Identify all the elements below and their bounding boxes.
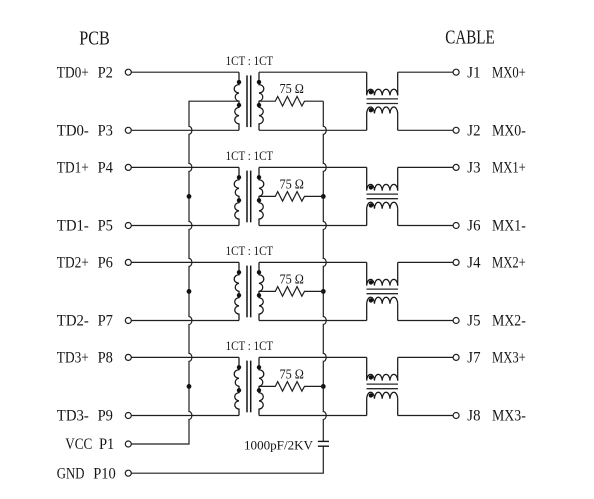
wire T1 secondary bottom to choke L1: [259, 129, 367, 131]
svg-text:P7: P7: [98, 313, 114, 330]
common-mode choke L1 top winding: [367, 72, 398, 95]
svg-text:MX2-: MX2-: [492, 313, 526, 330]
wire P7 to T3 primary bottom: [132, 320, 240, 322]
common-mode choke L2 core: [367, 194, 399, 199]
transformer T3 secondary winding: [259, 262, 264, 320]
transformer T1 secondary winding: [259, 72, 264, 130]
wire choke L2 to J3: [398, 166, 453, 168]
svg-text:75 Ω: 75 Ω: [279, 81, 304, 96]
svg-text:MX0+: MX0+: [492, 64, 526, 81]
junction: T2 primary CT to VCC rail: [187, 194, 192, 199]
common-mode choke L1 bottom winding right lead: [397, 114, 399, 131]
transformer T3 phase dots: [237, 270, 261, 297]
common-mode choke L3 bottom winding: [367, 297, 398, 320]
common-mode choke L1 core: [367, 99, 399, 104]
svg-text:MX2+: MX2+: [492, 255, 526, 272]
pin label J3 MX1+: [467, 160, 526, 177]
common-mode choke L3 top winding: [367, 262, 398, 285]
common-mode choke L3 core: [367, 289, 399, 294]
pin terminal P4 (TD1+): [125, 164, 131, 170]
transformer T3 primary winding: [234, 262, 239, 320]
svg-text:P8: P8: [98, 350, 114, 367]
svg-text:TD1+: TD1+: [57, 160, 89, 177]
wire T4 secondary top to choke L4: [259, 356, 367, 358]
wire choke L1 to J2: [398, 129, 453, 131]
transformer T2 phase dots: [237, 175, 261, 202]
pin label J8 MX3-: [467, 408, 526, 425]
pin terminal J3 (MX1+): [453, 164, 459, 170]
pin label TD0- P3: [57, 123, 113, 140]
pin terminal P6 (TD2+): [125, 259, 131, 265]
svg-text:TD1-: TD1-: [57, 218, 89, 235]
svg-text:1000pF/2KV: 1000pF/2KV: [244, 439, 313, 453]
common-mode choke L4 core: [367, 384, 399, 389]
resistor R1 75 Ohm (T1 secondary CT to termination rail): [259, 96, 323, 106]
svg-text:TD0+: TD0+: [57, 64, 89, 81]
transformer T2 secondary winding: [259, 167, 264, 225]
pin terminal J1 (MX0+): [453, 69, 459, 75]
common-mode choke L1 top winding right lead: [397, 72, 399, 95]
pin label TD2- P7: [57, 313, 113, 330]
common-mode choke L3 top winding right lead: [397, 262, 399, 285]
common-mode choke L1 bottom winding: [367, 107, 398, 130]
common-mode choke L4 bottom winding: [367, 392, 398, 415]
wire T1 secondary top to choke L1: [259, 71, 367, 73]
transformer T1 core: [247, 75, 251, 127]
pin label J6 MX1-: [467, 218, 526, 235]
wire P6 to T3 primary top: [132, 261, 240, 263]
svg-text:P4: P4: [98, 160, 114, 177]
pin terminal P9 (TD3-): [125, 413, 131, 419]
pin terminal J7 (MX3+): [453, 354, 459, 360]
pin terminal J5 (MX2-): [453, 318, 459, 324]
resistor R4 75 Ohm (T4 secondary CT to termination rail): [259, 382, 323, 392]
pin terminal J8 (MX3-): [453, 413, 459, 419]
pin label VCC P1: [65, 436, 114, 453]
common-mode choke L2 top winding right lead: [397, 167, 399, 190]
pin label J7 MX3+: [467, 350, 526, 367]
svg-text:P9: P9: [98, 408, 114, 425]
svg-text:VCC: VCC: [65, 436, 92, 453]
junction: R4 to termination rail: [321, 384, 326, 389]
wire choke L4 to J7: [398, 356, 453, 358]
svg-text:MX0-: MX0-: [492, 123, 526, 140]
svg-text:P3: P3: [98, 123, 114, 140]
transformer T2 core: [247, 171, 251, 223]
pin terminal P2 (TD0+): [125, 69, 131, 75]
svg-text:TD0-: TD0-: [57, 123, 89, 140]
junction: R3 to termination rail: [321, 289, 326, 294]
svg-text:J3: J3: [467, 160, 480, 177]
pin label TD2+ P6: [57, 255, 113, 272]
svg-text:TD3-: TD3-: [57, 408, 89, 425]
wire P5 to T2 primary bottom: [132, 225, 240, 227]
wire: termination rail (75-ohm commons down to capacitor C1): [323, 101, 326, 441]
transformer T4 core: [247, 361, 251, 413]
svg-text:PCB: PCB: [79, 27, 110, 49]
wire choke L2 to J6: [398, 225, 453, 227]
pin terminal P7 (TD2-): [125, 318, 131, 324]
svg-text:J4: J4: [467, 255, 480, 272]
wire choke L3 to J5: [398, 320, 453, 322]
wire T4 secondary bottom to choke L4: [259, 415, 367, 417]
pin terminal P1 (VCC): [125, 441, 131, 447]
transformer T3 core: [247, 266, 251, 318]
transformer T1 primary winding: [234, 72, 239, 130]
pin label TD3- P9: [57, 408, 113, 425]
pin label GND P10: [57, 465, 116, 482]
common-mode choke L4 top winding: [367, 357, 398, 380]
wire choke L1 to J1: [398, 71, 453, 73]
pin terminal P5 (TD1-): [125, 223, 131, 229]
resistor R2 75 Ohm (T2 secondary CT to termination rail): [259, 192, 323, 202]
svg-text:1CT : 1CT: 1CT : 1CT: [226, 148, 274, 163]
wire T3 secondary bottom to choke L3: [259, 320, 367, 322]
pin terminal P3 (TD0-): [125, 127, 131, 133]
wire choke L4 to J8: [398, 415, 453, 417]
common-mode choke L4 bottom winding right lead: [397, 399, 399, 416]
svg-text:J2: J2: [467, 123, 480, 140]
svg-text:75 Ω: 75 Ω: [279, 176, 304, 191]
pin terminal P10 (GND): [125, 470, 131, 476]
pin label TD1- P5: [57, 218, 113, 235]
svg-text:P10: P10: [93, 465, 116, 482]
transformer T4 primary winding: [234, 357, 239, 415]
svg-text:J6: J6: [467, 218, 480, 235]
svg-text:75 Ω: 75 Ω: [279, 366, 304, 381]
common-mode choke L4 top winding right lead: [397, 357, 399, 380]
common-mode choke L2 bottom winding: [367, 202, 398, 225]
junction: R2 to termination rail: [321, 194, 326, 199]
pin label J4 MX2+: [467, 255, 526, 272]
svg-text:J8: J8: [467, 408, 480, 425]
capacitor C1 1000pF/2KV: [318, 441, 329, 446]
svg-text:MX3-: MX3-: [492, 408, 526, 425]
svg-text:MX1+: MX1+: [492, 160, 526, 177]
wire P2 to T1 primary top: [132, 71, 240, 73]
common-mode choke L2 bottom winding right lead: [397, 209, 399, 226]
svg-text:P6: P6: [98, 255, 114, 272]
svg-text:1CT : 1CT: 1CT : 1CT: [226, 53, 274, 68]
svg-text:MX3+: MX3+: [492, 350, 526, 367]
pin label J1 MX0+: [467, 64, 526, 81]
pin label J2 MX0-: [467, 123, 526, 140]
common-mode choke L4 phase dots: [369, 375, 373, 397]
svg-text:TD2+: TD2+: [57, 255, 89, 272]
common-mode choke L3 bottom winding right lead: [397, 304, 399, 321]
pin label TD1+ P4: [57, 160, 113, 177]
common-mode choke L3 phase dots: [369, 280, 373, 302]
pin terminal J2 (MX0-): [453, 127, 459, 133]
transformer T2 primary winding: [234, 167, 239, 225]
pin terminal P8 (TD3+): [125, 354, 131, 360]
wire P8 to T4 primary top: [132, 356, 240, 358]
svg-text:J1: J1: [467, 64, 480, 81]
pin terminal J6 (MX1-): [453, 223, 459, 229]
svg-text:MX1-: MX1-: [492, 218, 526, 235]
svg-text:P2: P2: [98, 64, 113, 81]
pin label TD0+ P2: [57, 64, 113, 81]
wire P9 to T4 primary bottom: [132, 415, 240, 417]
wire: VCC center-tap rail (T1 primary CT down to VCC P1): [132, 101, 240, 444]
svg-text:TD2-: TD2-: [57, 313, 89, 330]
svg-text:1CT : 1CT: 1CT : 1CT: [226, 243, 274, 258]
junction: T4 primary CT to VCC rail: [187, 384, 192, 389]
common-mode choke L1 phase dots: [369, 90, 373, 112]
svg-text:J7: J7: [467, 350, 480, 367]
transformer T1 phase dots: [237, 80, 261, 107]
svg-text:J5: J5: [467, 313, 480, 330]
wire T2 secondary bottom to choke L2: [259, 225, 367, 227]
svg-text:P1: P1: [99, 436, 114, 453]
common-mode choke L2 phase dots: [369, 185, 373, 207]
resistor R3 75 Ohm (T3 secondary CT to termination rail): [259, 287, 323, 297]
svg-text:75 Ω: 75 Ω: [279, 271, 304, 286]
transformer T4 phase dots: [237, 365, 261, 392]
transformer T4 secondary winding: [259, 357, 264, 415]
pin label J5 MX2-: [467, 313, 526, 330]
svg-text:1CT : 1CT: 1CT : 1CT: [226, 338, 274, 353]
svg-text:CABLE: CABLE: [445, 27, 495, 49]
wire T2 secondary top to choke L2: [259, 166, 367, 168]
wire T3 secondary top to choke L3: [259, 261, 367, 263]
svg-text:GND: GND: [57, 465, 85, 482]
junction: T3 primary CT to VCC rail: [187, 289, 192, 294]
pin label TD3+ P8: [57, 350, 113, 367]
common-mode choke L2 top winding: [367, 167, 398, 190]
pin terminal J4 (MX2+): [453, 259, 459, 265]
wire capacitor C1 bottom to GND P10: [132, 446, 324, 473]
svg-text:P5: P5: [98, 218, 114, 235]
wire P4 to T2 primary top: [132, 166, 240, 168]
svg-text:TD3+: TD3+: [57, 350, 89, 367]
wire P3 to T1 primary bottom: [132, 129, 240, 131]
wire choke L3 to J4: [398, 261, 453, 263]
